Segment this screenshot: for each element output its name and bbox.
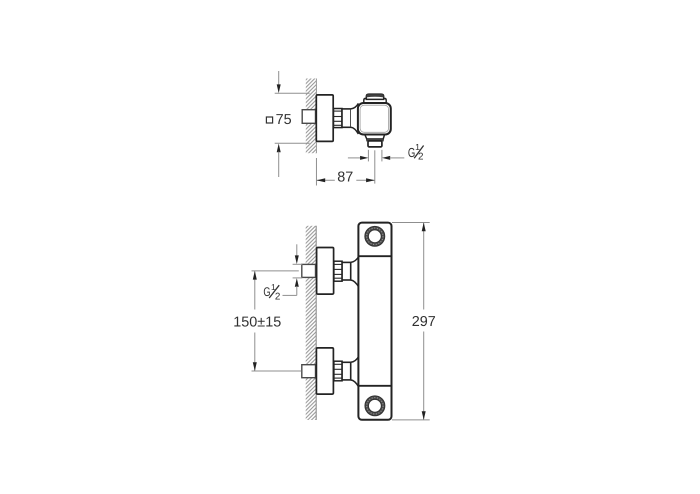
- upper flange: [317, 248, 334, 295]
- body divider top: [358, 255, 391, 257]
- cap dark band: [367, 94, 384, 97]
- outlet stub: [368, 141, 382, 147]
- dim 150±15 extension lines: [252, 270, 299, 272]
- supply pipe stub through wall: [302, 110, 315, 124]
- trumpet flare to body: [351, 103, 359, 134]
- dim 87: [317, 179, 335, 181]
- leader to G1/2: [283, 294, 297, 296]
- dim 297 extension lines: [392, 222, 430, 224]
- 87 wall extension: [315, 158, 317, 186]
- outlet extension lines: [367, 150, 369, 162]
- dim 75: extension lines: [275, 92, 310, 94]
- pipe dim upper arrow: [296, 244, 298, 255]
- top knob ring: [367, 228, 383, 244]
- wall surface line: [315, 79, 317, 154]
- bottom knob ring: [367, 398, 383, 414]
- wall flange: [316, 95, 333, 141]
- upper supply pipe: [302, 264, 316, 277]
- square symbol: [266, 117, 272, 123]
- svg-text:2: 2: [275, 292, 281, 303]
- svg-text:75: 75: [276, 112, 292, 128]
- wall hatch: [306, 79, 317, 154]
- lower flare: [351, 356, 359, 387]
- outlet trapezoid: [365, 135, 385, 139]
- dim 150±15 line + arrows: [254, 272, 256, 310]
- pipe dim lower arrow: [295, 278, 299, 287]
- dim 75: top arrow: [278, 71, 280, 85]
- wall surface line: [315, 226, 317, 420]
- dim 297 line + arrows: [423, 223, 425, 310]
- G1/2 arrows: [348, 157, 361, 159]
- svg-text:297: 297: [412, 314, 436, 330]
- outlet axis line: [374, 150, 376, 183]
- dim 75: bottom arrow: [277, 144, 281, 153]
- outlet dark band: [367, 139, 384, 141]
- body divider bottom: [358, 385, 391, 387]
- connector sleeve: [342, 109, 351, 127]
- lower nut: [334, 361, 342, 381]
- svg-text:150±15: 150±15: [233, 315, 281, 331]
- cap top: [366, 94, 383, 99]
- lower supply pipe: [302, 365, 316, 378]
- wall hatch: [306, 226, 317, 420]
- lower flange: [316, 348, 333, 394]
- body: [358, 103, 391, 135]
- lower sleeve: [342, 362, 351, 380]
- body inner line: [360, 105, 389, 132]
- upper sleeve: [342, 262, 351, 280]
- upper flare: [351, 256, 359, 287]
- knurled nut: [334, 109, 343, 128]
- svg-text:87: 87: [337, 169, 353, 185]
- pipe dim ticks: [293, 263, 303, 265]
- upper nut: [334, 261, 342, 281]
- body: [358, 223, 391, 420]
- cap shoulder: [364, 98, 386, 104]
